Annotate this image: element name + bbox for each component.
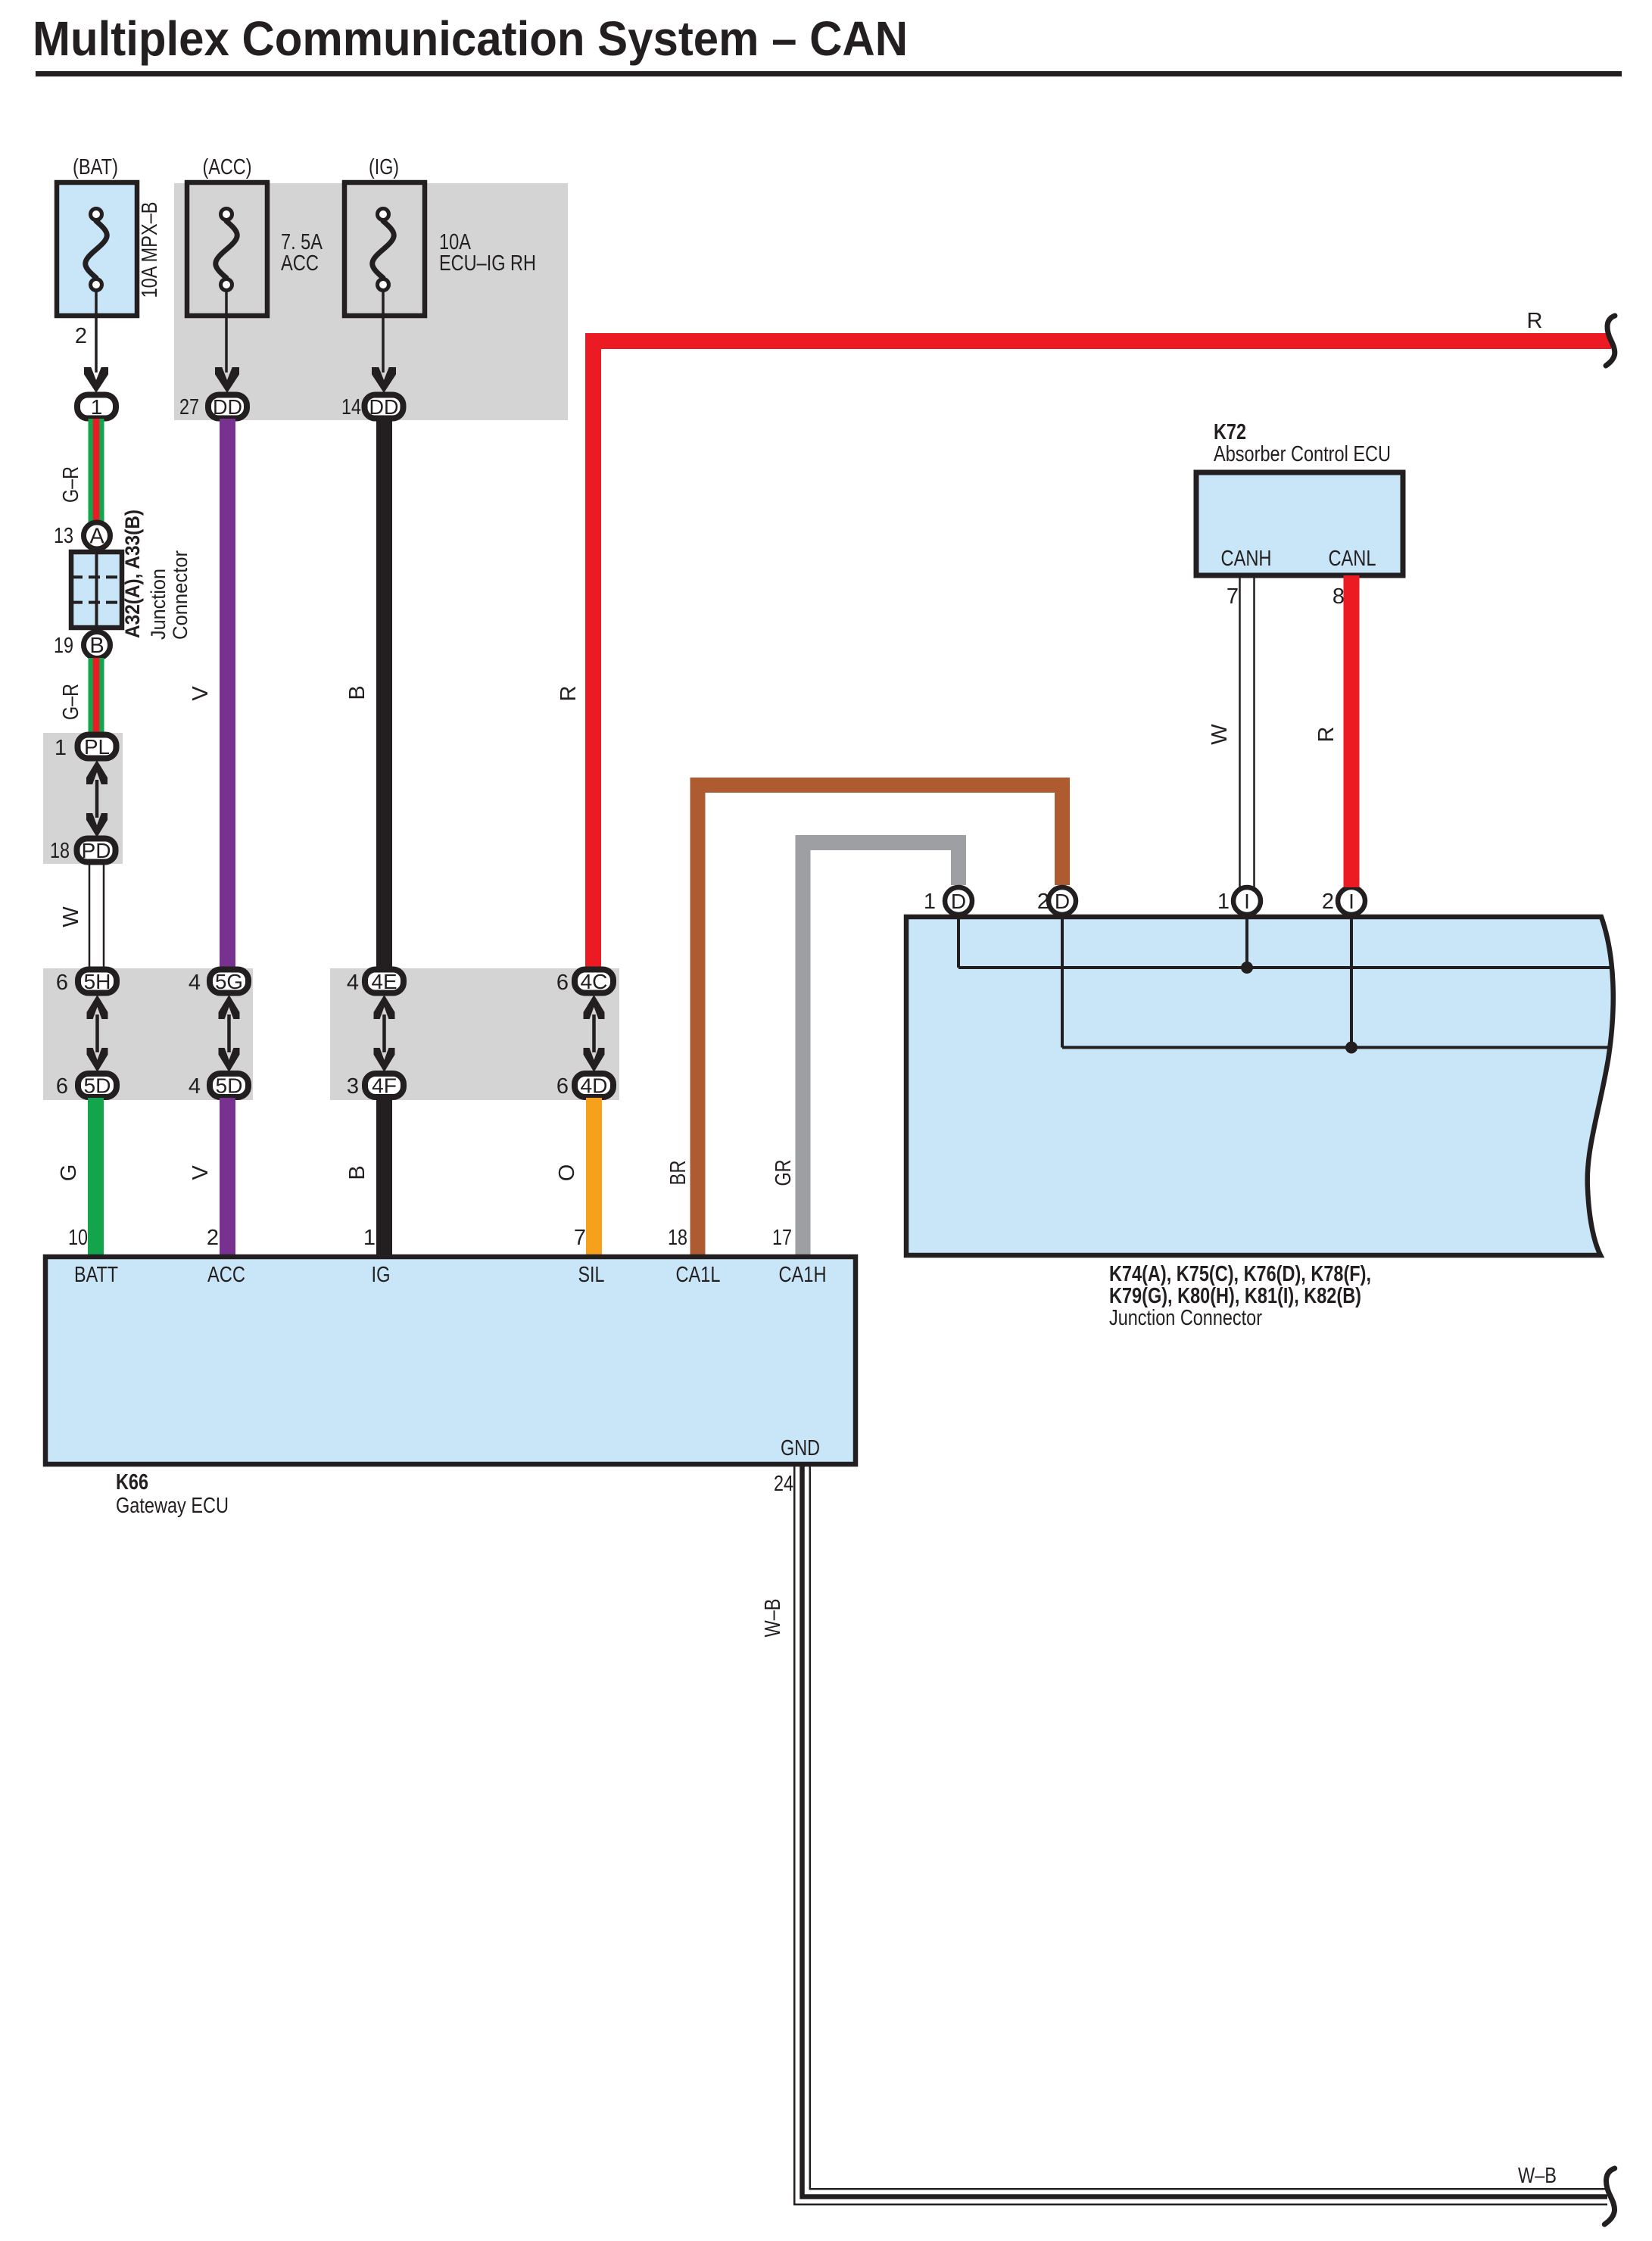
- svg-text:V: V: [189, 686, 213, 701]
- 4E-4D connector panel background: [330, 968, 619, 1100]
- svg-text:I: I: [1348, 890, 1354, 913]
- svg-text:2: 2: [1322, 890, 1334, 914]
- wire fuse IG to connector DD: [382, 291, 385, 372]
- svg-text:CANH: CANH: [1221, 547, 1272, 571]
- svg-text:4: 4: [347, 971, 359, 995]
- wire O: connector 4D to gateway SIL: [586, 1098, 602, 1256]
- svg-text:1: 1: [924, 890, 936, 914]
- junction connector A32(A), A33(B) block: [71, 552, 122, 628]
- svg-text:3: 3: [347, 1074, 359, 1099]
- 5H-5D connector panel background: [43, 968, 253, 1100]
- svg-text:B: B: [345, 1165, 369, 1180]
- svg-text:W: W: [59, 906, 83, 927]
- connector pair arrows 5H-5D: [87, 995, 108, 1019]
- svg-text:5H: 5H: [84, 970, 111, 993]
- svg-text:10: 10: [68, 1226, 88, 1250]
- svg-text:I: I: [1244, 890, 1250, 913]
- wire W: connector PD to connector 5H: [89, 864, 91, 969]
- svg-text:27: 27: [179, 395, 199, 419]
- svg-text:6: 6: [556, 971, 569, 995]
- svg-text:B: B: [345, 685, 369, 700]
- svg-text:6: 6: [56, 1074, 68, 1099]
- svg-text:BATT: BATT: [74, 1263, 118, 1287]
- connector DD pin 27 (oval): [208, 395, 247, 419]
- svg-text:Multiplex Communication System: Multiplex Communication System – CAN: [33, 11, 908, 66]
- svg-text:K74(A), K75(C), K76(D), K78(F): K74(A), K75(C), K76(D), K78(F),: [1109, 1262, 1371, 1286]
- svg-text:A32(A), A33(B): A32(A), A33(B): [121, 510, 144, 638]
- svg-text:14: 14: [341, 395, 361, 419]
- svg-text:1: 1: [91, 395, 103, 419]
- svg-text:R: R: [1527, 309, 1543, 333]
- svg-text:D: D: [951, 890, 966, 913]
- svg-text:6: 6: [556, 1074, 569, 1099]
- svg-text:(BAT): (BAT): [73, 155, 118, 179]
- svg-text:CANL: CANL: [1329, 547, 1376, 571]
- junction stub I2 with node dot: [1350, 917, 1353, 1048]
- svg-text:ACC: ACC: [207, 1263, 245, 1287]
- wire G: connector 5D to gateway BATT: [88, 1098, 104, 1256]
- svg-text:W: W: [1208, 724, 1232, 745]
- svg-text:G–R: G–R: [59, 466, 83, 503]
- svg-text:24: 24: [774, 1472, 793, 1496]
- connector pair arrows PL-PD: [86, 760, 108, 784]
- wire BR: gateway CA1L to junction connector D2: [698, 785, 1063, 1256]
- connector DD pin 14 (oval): [365, 395, 404, 419]
- svg-text:4E: 4E: [372, 970, 397, 993]
- svg-text:W–B: W–B: [1518, 2164, 1557, 2188]
- svg-text:A: A: [89, 525, 104, 549]
- svg-text:4D: 4D: [581, 1074, 608, 1098]
- svg-text:R: R: [1314, 727, 1339, 743]
- wire G-R: junction B to connector PL: [89, 658, 104, 733]
- svg-text:Absorber Control ECU: Absorber Control ECU: [1214, 442, 1391, 466]
- wire B: connector 4F to gateway IG: [376, 1098, 392, 1256]
- junction bus line 1: [957, 917, 960, 968]
- svg-text:17: 17: [772, 1226, 792, 1250]
- connector pair arrows 5G-5D: [219, 995, 240, 1019]
- svg-text:(IG): (IG): [369, 155, 399, 179]
- svg-text:CA1L: CA1L: [676, 1263, 721, 1287]
- svg-text:V: V: [189, 1165, 213, 1180]
- svg-text:Connector: Connector: [169, 550, 192, 640]
- svg-text:18: 18: [50, 839, 70, 863]
- svg-text:Gateway ECU: Gateway ECU: [116, 1494, 229, 1518]
- svg-text:DD: DD: [369, 395, 399, 419]
- svg-text:18: 18: [668, 1226, 687, 1250]
- svg-text:DD: DD: [213, 395, 242, 419]
- svg-text:5D: 5D: [216, 1074, 243, 1098]
- svg-text:K79(G), K80(H), K81(I), K82(B): K79(G), K80(H), K81(I), K82(B): [1109, 1284, 1361, 1308]
- svg-text:Junction: Junction: [147, 569, 170, 640]
- PL-PD connector panel background: [43, 733, 123, 864]
- svg-text:5G: 5G: [215, 970, 243, 993]
- svg-text:IG: IG: [372, 1263, 391, 1287]
- wire fuse ACC to connector DD: [225, 291, 228, 372]
- svg-text:GND: GND: [781, 1436, 820, 1460]
- junction stub I1 with node dot: [1245, 917, 1248, 968]
- svg-text:R: R: [556, 686, 581, 702]
- svg-text:ECU–IG RH: ECU–IG RH: [439, 251, 536, 276]
- svg-text:O: O: [555, 1164, 579, 1182]
- svg-text:19: 19: [54, 634, 73, 658]
- svg-text:BR: BR: [666, 1161, 690, 1186]
- svg-text:1: 1: [1217, 890, 1230, 914]
- svg-text:W–B: W–B: [761, 1599, 785, 1638]
- svg-text:1: 1: [55, 736, 67, 760]
- wire B: connector DD to connector 4E: [376, 419, 392, 969]
- svg-text:4F: 4F: [372, 1074, 397, 1098]
- wire G-R: connector 1 to junction A: [89, 419, 104, 522]
- wire R: main CAN bus wire, horizontal run to break: [585, 333, 1611, 349]
- svg-text:6: 6: [56, 971, 68, 995]
- wire V: connector 5D to gateway ACC: [220, 1098, 235, 1256]
- svg-text:D: D: [1055, 890, 1070, 913]
- svg-text:B: B: [89, 634, 104, 658]
- svg-text:8: 8: [1333, 584, 1345, 609]
- svg-text:2: 2: [207, 1226, 219, 1250]
- connector pair arrows 4E-4F: [374, 995, 395, 1019]
- connector 1 (oval): [77, 395, 116, 419]
- svg-text:4: 4: [189, 971, 201, 995]
- svg-text:GR: GR: [771, 1160, 796, 1186]
- svg-text:4C: 4C: [581, 970, 608, 993]
- svg-text:1: 1: [363, 1226, 376, 1250]
- svg-text:PD: PD: [82, 839, 111, 862]
- svg-text:G: G: [57, 1164, 81, 1182]
- svg-text:10A MPX–B: 10A MPX–B: [138, 202, 162, 298]
- wire V: connector DD to connector 5G: [220, 419, 235, 969]
- svg-text:ACC: ACC: [281, 251, 319, 276]
- fuse panel background: [174, 183, 568, 420]
- svg-text:7: 7: [1227, 584, 1239, 609]
- svg-text:PL: PL: [84, 735, 110, 759]
- svg-text:K66: K66: [116, 1470, 148, 1495]
- wire GR: gateway CA1H to junction connector D1: [803, 843, 959, 1256]
- connector pair arrows 4C-4D: [584, 995, 605, 1019]
- junction connector K74-K82 box: [906, 917, 1613, 1255]
- wire fuse BAT to connector 1: [95, 291, 98, 372]
- svg-text:CA1H: CA1H: [779, 1263, 827, 1287]
- svg-text:G–R: G–R: [59, 684, 83, 720]
- junction bus line 2: [1061, 917, 1064, 1048]
- svg-text:K72: K72: [1214, 420, 1246, 444]
- svg-text:SIL: SIL: [578, 1263, 605, 1287]
- svg-text:(ACC): (ACC): [203, 155, 252, 179]
- svg-text:Junction Connector: Junction Connector: [1109, 1306, 1262, 1330]
- svg-text:7: 7: [574, 1226, 586, 1250]
- gateway ECU K66 box: [45, 1257, 856, 1464]
- svg-text:4: 4: [189, 1074, 201, 1099]
- svg-text:13: 13: [54, 524, 73, 548]
- svg-text:5D: 5D: [84, 1074, 111, 1098]
- svg-text:2: 2: [75, 324, 87, 348]
